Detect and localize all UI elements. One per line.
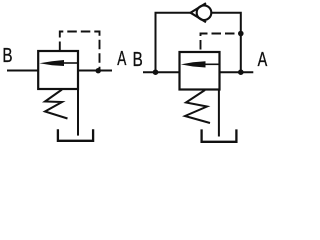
svg-text:B: B	[133, 48, 143, 71]
svg-text:A: A	[117, 47, 127, 69]
svg-text:A: A	[258, 48, 268, 71]
svg-text:B: B	[2, 44, 12, 67]
